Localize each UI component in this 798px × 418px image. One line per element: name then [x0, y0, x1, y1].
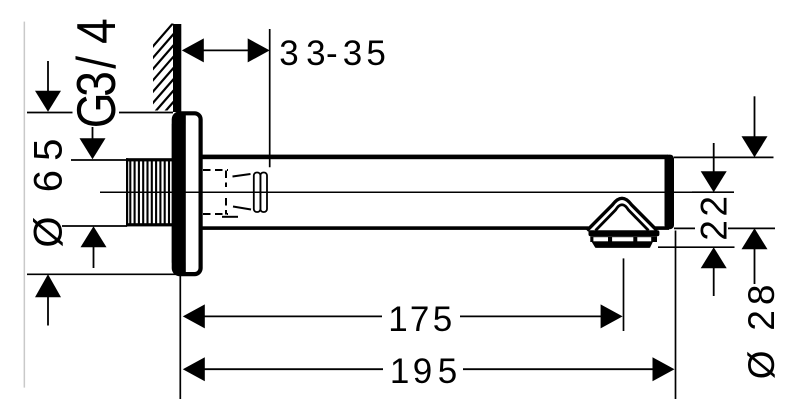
svg-text:G3/4: G3/4: [65, 18, 126, 128]
aerator ring 2: [590, 236, 657, 242]
svg-text:Ø28: Ø28: [741, 285, 782, 380]
aerator dome inner: [596, 205, 649, 231]
svg-text:22: 22: [694, 196, 735, 241]
wall face: [173, 24, 181, 112]
nipple thread lines: [130, 161, 169, 224]
aerator ring 3: [592, 242, 653, 248]
wall hatching: [152, 21, 175, 127]
dimension dia 28: [674, 96, 782, 379]
aerator ring 1: [589, 230, 660, 236]
dimension G3/4: [62, 18, 127, 268]
centerline: [100, 191, 733, 193]
svg-text:33-35: 33-35: [279, 34, 386, 73]
extension line right of wall: [269, 29, 271, 167]
aerator dome outer: [587, 198, 657, 230]
hidden connector dashed outline: [203, 170, 228, 215]
dimension 195: [180, 231, 675, 400]
border frame (faint left line): [24, 22, 26, 388]
spout body right end cap: [665, 155, 675, 230]
dimension 175: [183, 258, 624, 339]
hidden connector cylinder: [254, 173, 261, 213]
aerator ring 2 slots: [593, 237, 608, 241]
svg-text:195: 195: [390, 352, 457, 391]
spout body bottom edge right segment: [655, 226, 669, 230]
dimension 33-35: [182, 29, 386, 167]
hidden connector taper lines: [222, 174, 251, 217]
spout body top edge: [201, 155, 668, 160]
svg-text:175: 175: [388, 300, 452, 339]
dimension dia 65: [27, 61, 181, 326]
spout body bottom edge: [201, 226, 589, 230]
flange left band: [172, 112, 186, 276]
dimension 22: [658, 143, 735, 296]
flange (escutcheon): [174, 113, 201, 274]
svg-text:Ø65: Ø65: [27, 139, 71, 248]
threaded nipple G3/4: [126, 158, 172, 226]
